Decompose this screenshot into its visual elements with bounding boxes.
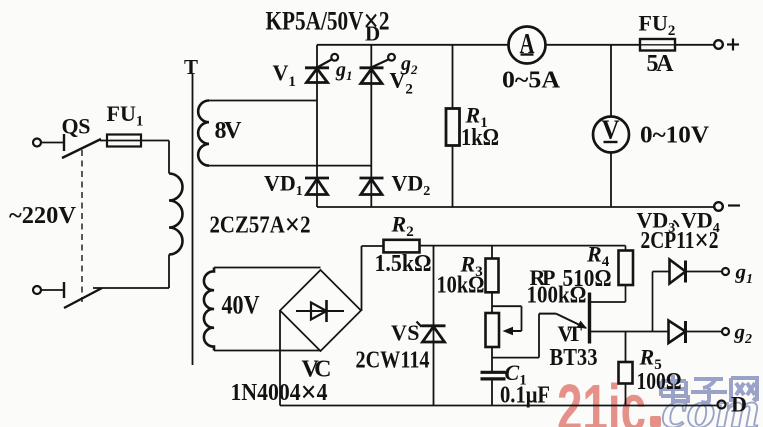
svg-text:VD1: VD1 [264,171,303,200]
terminal g1 [722,268,729,275]
wire emitter link [492,357,539,359]
svg-text:100kΩ: 100kΩ [527,283,587,309]
svg-text:g2: g2 [734,320,753,348]
svg-text:1N4004×4: 1N4004×4 [231,374,328,409]
capacitor C1 [481,371,506,374]
potentiometer RP [486,313,500,347]
diode VD3 [653,271,670,273]
watermark 电子网 [661,375,757,403]
wire left leg [316,45,318,207]
diode VD1 [305,178,329,195]
ammeter PA [509,27,546,64]
svg-text:2CZ57A×2: 2CZ57A×2 [210,207,311,242]
svg-text:1.5kΩ: 1.5kΩ [375,251,432,277]
zener VS [433,246,435,406]
svg-text:D: D [731,392,747,417]
switch QS bottom pole [63,282,65,298]
wire [41,289,63,291]
voltmeter PV [610,45,612,117]
resistor R2 [362,245,384,247]
bridge rectifier VC [280,270,361,351]
transformer primary winding [169,174,183,255]
wire 8V bottom lead [209,165,371,167]
svg-text:0.1μF: 0.1μF [500,383,550,409]
AC terminal bottom [33,286,41,294]
svg-text:VT: VT [558,321,583,346]
output terminal + [714,40,723,49]
wire riser to VD3 [652,272,654,332]
svg-text:8V: 8V [215,118,243,144]
wire B1 [590,331,670,333]
resistor R3 [491,246,493,259]
wire [100,140,169,142]
svg-text:FU2: FU2 [639,11,676,40]
watermark 21ic [557,371,760,427]
top bus D [317,44,509,46]
svg-text:FU1: FU1 [107,101,144,130]
svg-text:2CW114: 2CW114 [356,348,430,374]
fuse FU2 [640,44,675,46]
svg-text:QS: QS [62,114,91,139]
wire B2 to R4 [590,301,626,303]
svg-text:A: A [520,29,536,60]
svg-text:100Ω: 100Ω [637,369,682,395]
svg-text:0~5A: 0~5A [502,68,561,94]
wire to primary [168,141,170,174]
svg-text:0~10V: 0~10V [640,123,710,149]
svg-text:R2: R2 [391,212,414,241]
diode VD4 [669,321,686,344]
thyristor V2 [360,54,395,84]
resistor R4 [619,251,634,286]
wire [93,287,169,289]
wire DC minus [279,311,281,406]
diode VD2 [360,178,384,195]
svg-text:1kΩ: 1kΩ [461,125,499,151]
transistor VT base bar [588,293,591,344]
svg-text:40V: 40V [222,291,260,320]
svg-text:V: V [602,115,620,145]
svg-text:5A: 5A [647,51,675,77]
svg-text:V1: V1 [273,60,296,90]
terminal D [718,401,726,409]
wire right leg [370,45,372,207]
resistor R5 [625,332,627,363]
wire RP bottom to C1 [491,347,493,372]
svg-text:BT33: BT33 [550,345,598,371]
wire [41,142,63,144]
wire DC plus [361,246,363,311]
svg-text:g1: g1 [335,59,353,83]
output terminal - [714,202,723,211]
svg-text:10kΩ: 10kΩ [437,273,485,299]
switch link dashed [81,150,83,302]
thyristor V1 [305,54,338,83]
svg-text:2CP11×2: 2CP11×2 [641,222,719,257]
AC terminal top [33,139,41,147]
resistor R1 [452,45,454,109]
svg-text:~220V: ~220V [9,203,77,229]
svg-text:VD2: VD2 [392,171,431,200]
terminal g2 [722,328,729,335]
wire control rail [420,245,626,247]
svg-text:g1: g1 [735,260,754,288]
switch QS top pole [63,134,65,151]
transformer core [192,74,194,365]
fuse FU1 [107,135,141,147]
bottom rail [280,405,718,407]
transformer 40V winding [214,267,321,269]
bottom bus [317,206,714,208]
transistor VT emitter [539,313,556,315]
transformer 8V winding [209,100,317,102]
svg-text:T: T [184,55,198,79]
svg-text:D: D [365,22,380,46]
svg-text:VS: VS [391,320,420,345]
